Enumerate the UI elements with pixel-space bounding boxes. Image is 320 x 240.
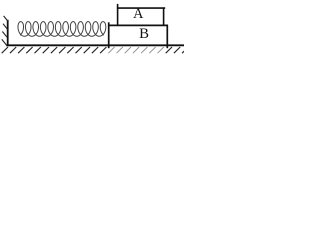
ground bbox=[6, 44, 184, 46]
block A bbox=[117, 4, 165, 26]
wall hatching bbox=[2, 16, 8, 45]
spring bbox=[18, 22, 106, 37]
ground hatching bbox=[2, 47, 189, 53]
wall bbox=[7, 20, 9, 46]
block B bbox=[108, 22, 168, 48]
svg-text:A: A bbox=[133, 6, 144, 22]
svg-text:B: B bbox=[139, 26, 149, 42]
